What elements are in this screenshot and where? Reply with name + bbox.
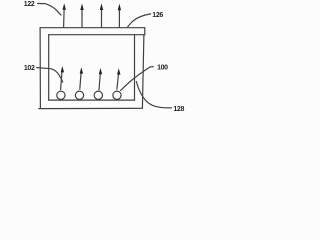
svg-text:100: 100	[157, 65, 168, 72]
svg-text:128: 128	[173, 106, 184, 113]
svg-text:102: 102	[24, 65, 35, 72]
svg-text:122: 122	[24, 1, 35, 8]
svg-text:126: 126	[152, 12, 163, 19]
